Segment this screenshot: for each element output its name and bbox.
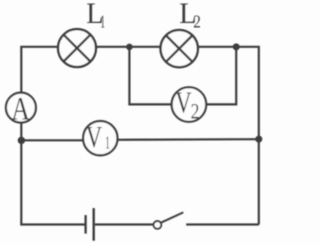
wire switch to bottom-right corner	[186, 223, 259, 225]
node J1 (top rail / V2 branch tap)	[126, 44, 133, 51]
wire node J1 to lamp L2	[129, 46, 160, 48]
battery B1	[86, 208, 94, 241]
node J3 (left rail / V1 branch tap)	[18, 137, 25, 144]
wire V2 branch left: node J1 down and right to voltmeter V2	[129, 47, 171, 105]
lamp L2	[161, 30, 198, 67]
node J4 (right rail / V1 branch tap)	[255, 136, 262, 143]
svg-text:V: V	[86, 119, 103, 154]
ammeter A	[6, 91, 36, 127]
svg-text:1: 1	[100, 11, 105, 31]
voltmeter V1	[83, 119, 117, 156]
wire lamp L1 to node J1	[96, 46, 129, 48]
node J2 (top rail right / V2 branch)	[233, 43, 240, 50]
label L1	[86, 0, 105, 31]
svg-text:2: 2	[191, 98, 200, 123]
switch S1	[154, 212, 184, 228]
wire ammeter bottom through node J3 to bottom-left corner and to battery	[21, 123, 84, 225]
wire battery to switch	[95, 223, 154, 225]
wire V1 branch right: voltmeter V1 to node J4 on right rail	[118, 138, 259, 141]
svg-text:2: 2	[193, 11, 201, 31]
wire top-left corner: left rail upper segment to lamp L1	[21, 47, 58, 93]
svg-text:1: 1	[105, 132, 110, 152]
svg-text:V: V	[175, 85, 192, 120]
label L2	[179, 0, 201, 31]
voltmeter V2	[172, 85, 207, 124]
wire V2 branch right: voltmeter V2 up to node J2	[206, 47, 236, 105]
lamp L1	[58, 29, 96, 67]
wire lamp L2 to node J2	[198, 46, 237, 48]
svg-text:A: A	[11, 91, 30, 127]
wire V1 branch left: node J3 to voltmeter V1	[21, 139, 83, 141]
wire node J2 to top-right corner and right rail	[236, 47, 259, 225]
